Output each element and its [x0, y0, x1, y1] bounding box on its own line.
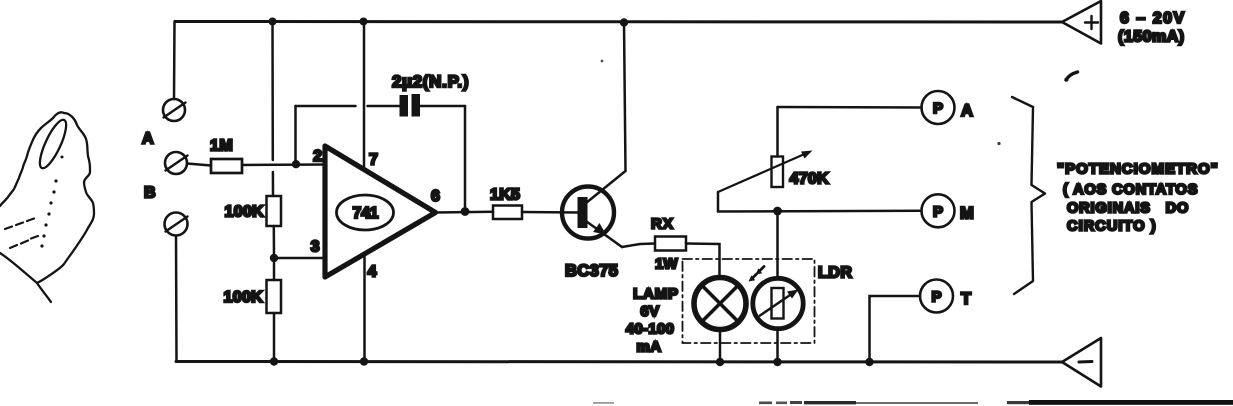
terminal P M circle [922, 194, 955, 227]
svg-text:P: P [931, 289, 941, 306]
emitter arrowhead [593, 223, 606, 235]
wire 1K5 to transistor base [522, 211, 578, 214]
potentiometer RV1 470K body [772, 157, 784, 188]
svg-text:LDR: LDR [818, 265, 852, 282]
wire lower 100K to bottom rail [273, 313, 276, 362]
wire feedback vertical from pin2 node [294, 106, 297, 164]
wire RX to lamp [686, 244, 720, 277]
svg-text:P: P [933, 203, 943, 220]
wire collector to top rail [624, 23, 626, 171]
svg-text:470K: 470K [790, 171, 830, 188]
svg-text:40-100: 40-100 [626, 321, 675, 338]
wire divider drop from rail [271, 22, 274, 161]
wire bottom rail [176, 360, 1062, 364]
junction dot on rail (collector) [620, 18, 628, 26]
wire capacitor to feedback corner [420, 105, 465, 108]
junction dot on rail (pin7) [360, 18, 368, 26]
wire 100K to divider node [273, 226, 276, 258]
svg-text:mA: mA [636, 339, 661, 356]
svg-text:1M: 1M [210, 138, 233, 155]
wire LDR up to pot node [776, 211, 779, 279]
svg-text:6V: 6V [640, 303, 659, 320]
brace } [1012, 97, 1045, 294]
contact screw middle [165, 152, 188, 174]
stray dot above transistor [601, 60, 604, 63]
wire left drop from rail to contact A [173, 22, 176, 100]
resistor R3 100K (lower) [267, 280, 282, 313]
svg-text:CIRCUITO ): CIRCUITO ) [1067, 219, 1157, 235]
lamp LP1 circle [694, 278, 746, 330]
wire emitter to RX [622, 244, 655, 248]
transistor emitter diagonal [587, 222, 623, 248]
supply + triangle [1062, 1, 1101, 44]
wire pin 7 from rail [363, 22, 366, 168]
svg-text:2µ2(N.P.): 2µ2(N.P.) [392, 72, 469, 91]
LDR light arrow 2 [753, 274, 757, 278]
svg-text:(150mA): (150mA) [1118, 29, 1185, 46]
wire wiper stub down [717, 192, 720, 212]
junction dot bottom rail (PT) [865, 358, 873, 366]
wire contact middle to resistor 1M [187, 164, 211, 166]
node divider junction dot [270, 254, 278, 262]
op-amp 741 ellipse [337, 195, 394, 230]
node pot/LDR junction dot [773, 207, 782, 216]
plus sign [1085, 16, 1098, 29]
svg-text:100K: 100K [225, 204, 265, 221]
svg-text:6: 6 [431, 188, 440, 205]
bottom scan artifact bars [593, 400, 1233, 405]
LDR arrowhead [787, 290, 799, 299]
op-amp U1 741 triangle [325, 146, 436, 277]
wire node to lower 100K [273, 258, 276, 280]
svg-text:B: B [144, 185, 156, 202]
wire feedback horizontal to capacitor [296, 105, 356, 108]
wire P T to bottom rail [870, 296, 921, 362]
LDR arrow [760, 293, 793, 316]
LDR light arrow 1 [760, 267, 764, 271]
wire lamp to bottom rail [719, 330, 722, 363]
svg-text:741: 741 [353, 205, 379, 222]
transistor base bar [578, 197, 588, 228]
svg-text:RX: RX [651, 216, 674, 233]
finger knuckle dashes [5, 219, 38, 249]
wire feedback drop to pin6 node [464, 106, 467, 212]
stray dot near brace [997, 142, 1000, 145]
wire LDR to bottom rail [776, 328, 779, 362]
dashed enclosure box lamp+LDR [683, 259, 815, 343]
minus sign [1079, 360, 1092, 364]
svg-text:M: M [960, 205, 974, 223]
wire 1M to pin2 node [242, 163, 326, 166]
resistor R2 100K (upper) [267, 196, 282, 226]
svg-text:7: 7 [369, 152, 378, 169]
svg-text:100K: 100K [224, 289, 264, 306]
svg-text:LAMP: LAMP [633, 286, 679, 303]
LDR body rect [772, 288, 784, 319]
junction dot bottom rail (lamp) [716, 358, 724, 366]
terminal P A circle [922, 91, 955, 124]
lamp X diagonal 2 [703, 286, 738, 321]
svg-text:6 – 20V: 6 – 20V [1120, 10, 1186, 27]
svg-text:2: 2 [313, 148, 322, 165]
transistor Q1 BC375 circle [562, 187, 614, 239]
wire top supply rail [175, 20, 1062, 24]
svg-text:T: T [961, 290, 971, 308]
wire pin 6 output [436, 211, 494, 214]
svg-text:BC375: BC375 [565, 262, 618, 280]
supply - triangle [1062, 338, 1101, 387]
svg-text:P: P [933, 100, 943, 117]
LDR circle [753, 278, 803, 328]
lamp X diagonal 1 [703, 286, 738, 321]
contact screw top (A) [163, 99, 186, 121]
svg-text:ORIGINAIS DO: ORIGINAIS DO [1067, 201, 1189, 217]
pot wiper arrowhead [801, 151, 813, 159]
svg-text:"POTENCIOMETRO": "POTENCIOMETRO" [1057, 161, 1219, 178]
resistor R4 1K5 [493, 206, 522, 220]
finger touching contacts [0, 112, 94, 302]
contact screw bottom (B) [165, 213, 188, 236]
svg-text:3: 3 [311, 239, 320, 256]
capacitor C1 plate right [412, 94, 421, 117]
junction dot bottom rail (LDR) [773, 358, 781, 366]
svg-text:A: A [142, 131, 154, 148]
wire pin 4 to bottom rail [363, 254, 366, 362]
svg-text:A: A [961, 102, 973, 120]
wire contact B down to bottom rail [175, 236, 178, 362]
junction dot bottom rail (pin4) [360, 357, 368, 365]
finger dotted crease marks [40, 156, 63, 248]
resistor R5 RX [655, 237, 686, 251]
stray ink mark (comma) top right [1066, 72, 1078, 80]
capacitor C1 2u2 NP plate left [400, 95, 409, 117]
wire pin 3 [274, 257, 326, 260]
wire pot node to P M terminal [718, 210, 922, 213]
junction dot on rail (divider) [269, 18, 277, 26]
node pin6 junction dot [461, 207, 470, 216]
wire P A horizontal [778, 106, 922, 109]
resistor R1 1M [211, 159, 242, 173]
node pin2 junction dot [292, 160, 300, 168]
terminal P T circle [920, 280, 953, 313]
wire pot top [776, 107, 779, 157]
fingernail [35, 117, 71, 171]
svg-text:( AOS CONTATOS: ( AOS CONTATOS [1063, 182, 1198, 198]
pot wiper diagonal [718, 153, 808, 193]
svg-text:1W: 1W [655, 256, 678, 273]
svg-text:1K5: 1K5 [490, 187, 520, 204]
junction dot bottom rail at divider [270, 357, 278, 365]
transistor collector diagonal [586, 171, 626, 203]
svg-text:4: 4 [368, 264, 377, 281]
